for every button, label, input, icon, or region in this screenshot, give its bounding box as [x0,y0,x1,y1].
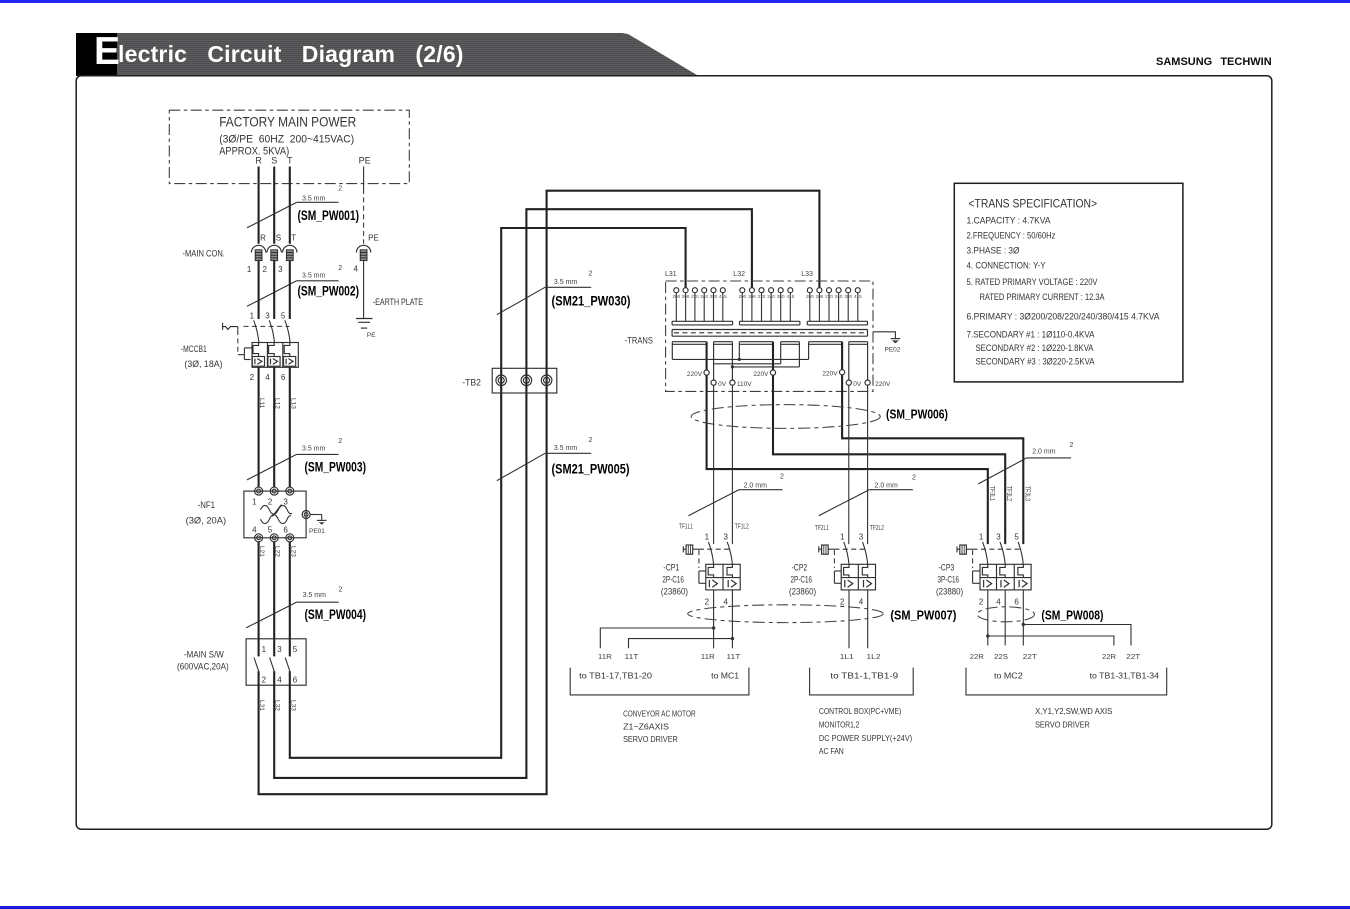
wire 220V#3 to TF3L3 [842,375,1023,544]
circuit breaker MCCB1 [181,311,298,382]
svg-text:S: S [271,156,277,166]
svg-text:6: 6 [283,525,288,534]
svg-text:22S: 22S [994,654,1008,661]
svg-text:(SM21_PW005): (SM21_PW005) [552,462,630,477]
svg-text:<TRANS SPECIFICATION>: <TRANS SPECIFICATION> [969,197,1098,211]
svg-text:1L1: 1L1 [840,654,854,661]
svg-text:L32: L32 [733,271,745,278]
TB2 terminal at 501.2 [496,375,507,386]
svg-text:2: 2 [979,598,984,607]
svg-text:2: 2 [840,598,845,607]
svg-text:240: 240 [700,294,708,299]
svg-text:3.5 mm: 3.5 mm [302,196,326,203]
title banner black box [76,33,117,76]
NF1 terminal 3 [286,487,294,495]
wire S drop to connector [273,167,275,244]
svg-text:4: 4 [252,525,257,534]
svg-text:Z1~Z6AXIS: Z1~Z6AXIS [623,722,669,732]
svg-text:4: 4 [277,676,282,685]
wire 22R extension [988,636,1114,646]
wire 110V to CP1 (TF1L2) [731,385,733,544]
svg-text:to TB1-31,TB1-34: to TB1-31,TB1-34 [1090,671,1160,681]
svg-text:(SM_PW008): (SM_PW008) [1041,609,1103,623]
svg-text:FACTORY MAIN POWER: FACTORY MAIN POWER [219,115,356,130]
svg-text:11R: 11R [701,654,715,661]
svg-text:PE02: PE02 [885,347,901,354]
svg-text:5: 5 [268,525,273,534]
svg-text:220: 220 [825,294,833,299]
winding jumper 1 [672,358,808,360]
group ellipse SM_PW007 [688,605,884,623]
svg-text:2: 2 [262,265,267,274]
company name [1156,56,1272,68]
noise filter NF1 [186,487,327,542]
svg-text:SECONDARY #3 : 3Ø220-2.5KVA: SECONDARY #3 : 3Ø220-2.5KVA [976,357,1095,367]
svg-text:to TB1-17,TB1-20: to TB1-17,TB1-20 [579,671,652,681]
svg-text:200: 200 [738,294,746,299]
svg-text:DC POWER SUPPLY(+24V): DC POWER SUPPLY(+24V) [819,733,912,743]
wire 11T stub [629,639,733,649]
svg-text:3.5 mm: 3.5 mm [302,273,326,280]
svg-text:-TB2: -TB2 [462,377,481,387]
svg-text:1L2: 1L2 [867,654,881,661]
svg-text:T: T [291,233,296,242]
secondary terminal 220V #2 [770,370,775,375]
secondary terminal 220V #1 [704,370,709,375]
svg-text:SERVO DRIVER: SERVO DRIVER [623,734,678,744]
secondary terminal 110V [730,380,735,385]
wire L12 [273,367,275,487]
title banner gray ribbon [117,33,698,76]
svg-text:0V: 0V [718,381,727,388]
svg-text:22T: 22T [1023,654,1038,661]
wire L21 [258,542,260,657]
svg-text:1: 1 [250,311,255,320]
winding edges / terminal wires [671,342,673,360]
svg-text:X,Y1,Y2,SW,WD AXIS: X,Y1,Y2,SW,WD AXIS [1035,706,1112,716]
svg-text:to TB1-1,TB1-9: to TB1-1,TB1-9 [830,671,898,681]
svg-text:2.0 mm: 2.0 mm [744,483,768,490]
svg-text:3: 3 [278,265,283,274]
NF1 PE01 terminal [302,511,310,519]
wire L13 [289,367,291,487]
svg-text:2: 2 [589,271,593,278]
svg-text:-CP1: -CP1 [663,563,679,573]
svg-text:22T: 22T [1126,654,1141,661]
svg-text:(SM_PW002): (SM_PW002) [298,284,360,299]
PE01 ground symbol [317,519,327,521]
wire PE to earth plate [363,261,365,318]
wire L32 loop [274,209,752,778]
svg-text:(SM_PW007): (SM_PW007) [890,609,956,623]
svg-text:(3Ø, 20A): (3Ø, 20A) [186,515,227,525]
svg-text:(SM_PW006): (SM_PW006) [886,408,948,422]
svg-text:1: 1 [262,645,267,654]
wire L11 [258,367,260,487]
CP2 trip linkage [834,548,865,550]
NF1 terminal 1 [255,487,263,495]
svg-text:L33: L33 [801,271,813,278]
wire L33 loop [290,228,686,758]
svg-text:6: 6 [293,676,298,685]
svg-text:415: 415 [719,294,727,299]
svg-text:3: 3 [277,645,282,654]
top blue rule [0,0,1350,3]
svg-text:-NF1: -NF1 [198,500,215,510]
wire PE solid + dashed drop [363,167,365,190]
svg-text:3: 3 [723,533,728,542]
svg-text:L33: L33 [289,700,296,711]
svg-text:3.5 mm: 3.5 mm [302,446,326,453]
svg-text:0V: 0V [853,381,862,388]
secondary terminal 220V #4 [865,380,870,385]
svg-text:415: 415 [786,294,794,299]
svg-text:6.PRIMARY : 3Ø200/208/220/240/: 6.PRIMARY : 3Ø200/208/220/240/380/415 4.… [967,312,1160,322]
svg-text:(3Ø, 18A): (3Ø, 18A) [184,359,222,369]
wire 220V#4 to CP2 (TF2L2) [867,385,869,544]
wire L31 loop [259,191,820,795]
transformer primary winding group 1 [672,288,733,325]
svg-text:220: 220 [758,294,766,299]
svg-text:2: 2 [339,587,343,594]
svg-text:6: 6 [1014,598,1019,607]
svg-text:R: R [255,156,262,166]
svg-text:PE01: PE01 [309,528,325,535]
factory main power box [169,110,409,183]
svg-text:6: 6 [281,373,286,382]
svg-text:380: 380 [777,294,785,299]
svg-text:TF3L3: TF3L3 [1023,486,1030,501]
circuit protector CP2 [789,533,876,607]
bottom blue rule [0,906,1350,909]
svg-text:RATED PRIMARY CURRENT : 12.3A: RATED PRIMARY CURRENT : 12.3A [980,292,1105,302]
group ellipse SM_PW006 [691,405,880,429]
svg-text:1: 1 [252,498,257,507]
svg-text:AC FAN: AC FAN [819,746,844,756]
svg-text:240: 240 [767,294,775,299]
svg-text:2P-C16: 2P-C16 [791,575,813,585]
svg-text:11R: 11R [598,654,612,661]
svg-text:2: 2 [912,475,916,482]
transformer TRANS enclosure [666,281,873,391]
svg-text:240: 240 [835,294,843,299]
svg-text:S: S [276,233,281,242]
svg-text:3.5 mm: 3.5 mm [303,592,327,599]
svg-text:2: 2 [338,265,342,272]
svg-text:2.0 mm: 2.0 mm [875,483,899,490]
svg-text:3: 3 [859,533,864,542]
svg-text:TF3L1: TF3L1 [988,486,995,501]
svg-text:MONITOR1,2: MONITOR1,2 [819,720,860,730]
secondary terminal 0V #2 [846,380,851,385]
svg-text:(23860): (23860) [789,587,816,597]
svg-text:3.5 mm: 3.5 mm [554,279,578,286]
svg-text:5: 5 [281,311,286,320]
svg-text:3.PHASE : 3Ø: 3.PHASE : 3Ø [967,246,1020,256]
svg-text:(600VAC,20A): (600VAC,20A) [177,661,229,671]
wire 0V#2 to CP2 (TF2L1) [848,385,850,544]
svg-text:2: 2 [780,474,784,481]
wire CP2 pin4 down [867,590,869,648]
NF1 terminal 4 [255,534,263,542]
transformer primary winding group 2 [738,288,799,325]
CP2 manual operator [818,546,820,552]
svg-text:CONTROL BOX(PC+VME): CONTROL BOX(PC+VME) [819,706,902,716]
svg-text:220V: 220V [875,381,891,388]
svg-text:3P-C16: 3P-C16 [938,575,960,585]
wire T to MCCB [289,261,291,319]
svg-text:SERVO DRIVER: SERVO DRIVER [1035,720,1090,730]
svg-text:L13: L13 [289,398,296,409]
wire 11R stub [600,628,713,648]
svg-text:110V: 110V [737,381,752,388]
svg-text:4: 4 [723,598,728,607]
svg-text:SECONDARY #2 : 1Ø220-1.8KVA: SECONDARY #2 : 1Ø220-1.8KVA [976,343,1094,353]
MCCB1 trip dashed linkage [244,325,290,327]
wire 22T extension [1023,625,1131,646]
svg-text:2: 2 [250,373,255,382]
svg-text:22R: 22R [1102,654,1116,661]
svg-text:2.FREQUENCY : 50/60Hz: 2.FREQUENCY : 50/60Hz [967,231,1056,241]
svg-text:5: 5 [293,645,298,654]
svg-text:L31: L31 [258,700,265,711]
svg-text:2: 2 [589,437,593,444]
svg-text:4: 4 [859,598,864,607]
svg-text:380: 380 [710,294,718,299]
CP1 manual operator [682,546,684,552]
title big E [94,30,120,74]
svg-text:2: 2 [338,438,342,445]
wire CP3 pin4 down [1004,590,1006,646]
secondary terminal 0V #1 [711,380,716,385]
svg-text:L12: L12 [274,398,281,409]
svg-text:(SM_PW003): (SM_PW003) [305,460,367,475]
svg-text:to MC1: to MC1 [711,671,739,681]
svg-text:-MCCB1: -MCCB1 [181,344,207,354]
transformer primary winding group 3 [806,288,868,325]
secondary terminal 220V #3 [840,370,845,375]
svg-text:-MAIN S/W: -MAIN S/W [184,649,224,659]
svg-text:-CP3: -CP3 [939,563,955,573]
svg-text:4: 4 [265,373,270,382]
group ellipse SM_PW008 [977,607,1034,622]
svg-text:7.SECONDARY #1 : 1Ø110-0.4KVA: 7.SECONDARY #1 : 1Ø110-0.4KVA [967,329,1095,339]
NF1 terminal 5 [270,534,278,542]
svg-text:5: 5 [1014,533,1019,542]
svg-text:1: 1 [247,265,252,274]
svg-text:(3Ø/PE 60HZ 200~415VAC): (3Ø/PE 60HZ 200~415VAC) [219,133,354,145]
PE02 ground [873,332,895,338]
svg-text:1: 1 [979,533,984,542]
svg-text:5. RATED PRIMARY VOLTAGE : 220: 5. RATED PRIMARY VOLTAGE : 220V [967,277,1098,287]
svg-text:220V: 220V [687,371,703,378]
bracket to MC2 / TB1-31 [966,668,1167,695]
svg-text:3: 3 [283,498,288,507]
CP3 manual operator [956,546,958,552]
svg-text:1: 1 [840,533,845,542]
svg-text:4. CONNECTION: Y-Y: 4. CONNECTION: Y-Y [967,260,1046,270]
svg-text:PE: PE [359,156,371,166]
CP3 trip linkage [973,548,1022,550]
svg-text:220V: 220V [753,371,769,378]
svg-text:2: 2 [1070,442,1074,449]
wire 220V#2 to TF3L2 [773,375,1005,544]
svg-text:11T: 11T [726,654,741,661]
wire CP1 pin4 down [731,590,733,648]
wire L23 [289,542,291,657]
title text [118,33,678,76]
svg-text:-TRANS: -TRANS [625,336,653,346]
svg-text:to MC2: to MC2 [994,671,1023,681]
winding jumper 2 [714,363,781,365]
bracket to TB1-17/MC1 [570,668,749,695]
svg-text:-EARTH PLATE: -EARTH PLATE [373,297,423,307]
wire L22 [273,542,275,657]
svg-text:208: 208 [682,294,690,299]
svg-text:(23880): (23880) [936,587,963,597]
svg-text:L11: L11 [258,398,265,409]
wire 220V#1 to TF3L1 [707,375,988,544]
svg-text:L31: L31 [665,271,677,278]
svg-text:22R: 22R [970,654,984,661]
svg-text:CONVEYOR AC MOTOR: CONVEYOR AC MOTOR [623,709,696,719]
svg-text:TF2L1: TF2L1 [815,525,829,532]
wire R drop to connector [258,167,260,244]
svg-text:11T: 11T [625,654,640,661]
svg-text:(SM21_PW030): (SM21_PW030) [552,294,631,309]
svg-text:L21: L21 [258,546,265,557]
svg-text:2P-C16: 2P-C16 [662,575,684,585]
svg-text:4: 4 [353,265,358,274]
svg-text:(SM_PW004): (SM_PW004) [305,607,367,622]
svg-text:2: 2 [268,498,273,507]
svg-text:TF2L2: TF2L2 [870,525,884,532]
TB2 terminal at 526.4 [521,375,532,386]
svg-text:-CP2: -CP2 [792,563,808,573]
svg-text:1.CAPACITY : 4.7KVA: 1.CAPACITY : 4.7KVA [967,215,1051,225]
circuit protector CP1 [661,533,740,607]
svg-text:PE: PE [367,332,376,339]
wire S to MCCB [273,261,275,319]
NF1 terminal 6 [286,534,294,542]
svg-text:2: 2 [262,676,267,685]
circuit protector CP3 [936,533,1031,607]
wire CP2 pin2 down [848,590,850,648]
svg-text:3: 3 [265,311,270,320]
svg-text:(SM_PW001): (SM_PW001) [298,208,360,223]
svg-text:220: 220 [691,294,699,299]
winding jumper 3 [732,366,799,368]
transformer core bar [672,330,867,337]
wire R to MCCB [258,261,260,319]
svg-text:2.0 mm: 2.0 mm [1032,449,1056,456]
svg-text:TF1L2: TF1L2 [735,524,749,531]
svg-text:208: 208 [816,294,824,299]
trans specification box [954,183,1183,382]
svg-text:208: 208 [748,294,756,299]
svg-text:3: 3 [996,533,1001,542]
svg-text:200: 200 [806,294,814,299]
bracket to TB1-1 [810,668,914,695]
main switch MAIN S/W [177,639,306,685]
CP1 trip linkage [699,548,731,550]
svg-text:TF1L1: TF1L1 [679,524,693,531]
svg-text:(23860): (23860) [661,587,688,597]
wire CP3 pin2 down [987,590,989,646]
svg-text:L23: L23 [289,546,296,557]
svg-text:3.5 mm: 3.5 mm [554,445,578,452]
svg-text:2: 2 [705,598,710,607]
svg-text:200: 200 [672,294,680,299]
svg-text:L32: L32 [274,700,281,711]
svg-text:1: 1 [705,533,710,542]
drawing frame [76,76,1272,830]
svg-text:4: 4 [996,598,1001,607]
svg-text:APPROX. 5KVA): APPROX. 5KVA) [219,145,289,157]
svg-text:TF3L2: TF3L2 [1005,486,1012,501]
earth plate ground symbol [356,318,373,320]
NF1 terminal 2 [270,487,278,495]
wire CP1 pin2 down [713,590,715,648]
svg-text:380: 380 [844,294,852,299]
svg-text:L22: L22 [274,546,281,557]
TB2 terminal at 546.6 [541,375,552,386]
transformer secondary windings [672,342,867,380]
svg-text:415: 415 [854,294,862,299]
svg-text:PE: PE [368,233,379,242]
svg-text:2: 2 [338,185,342,192]
svg-text:-MAIN CON.: -MAIN CON. [183,249,225,259]
svg-text:T: T [287,156,293,166]
NF1 filter waves [261,505,292,514]
wire 0V#1 to CP1 (TF1L1) [713,385,715,544]
wire CP3 pin6 down [1022,590,1024,646]
svg-text:R: R [260,233,266,242]
wire T drop to connector [289,167,291,244]
svg-text:220V: 220V [822,371,838,378]
